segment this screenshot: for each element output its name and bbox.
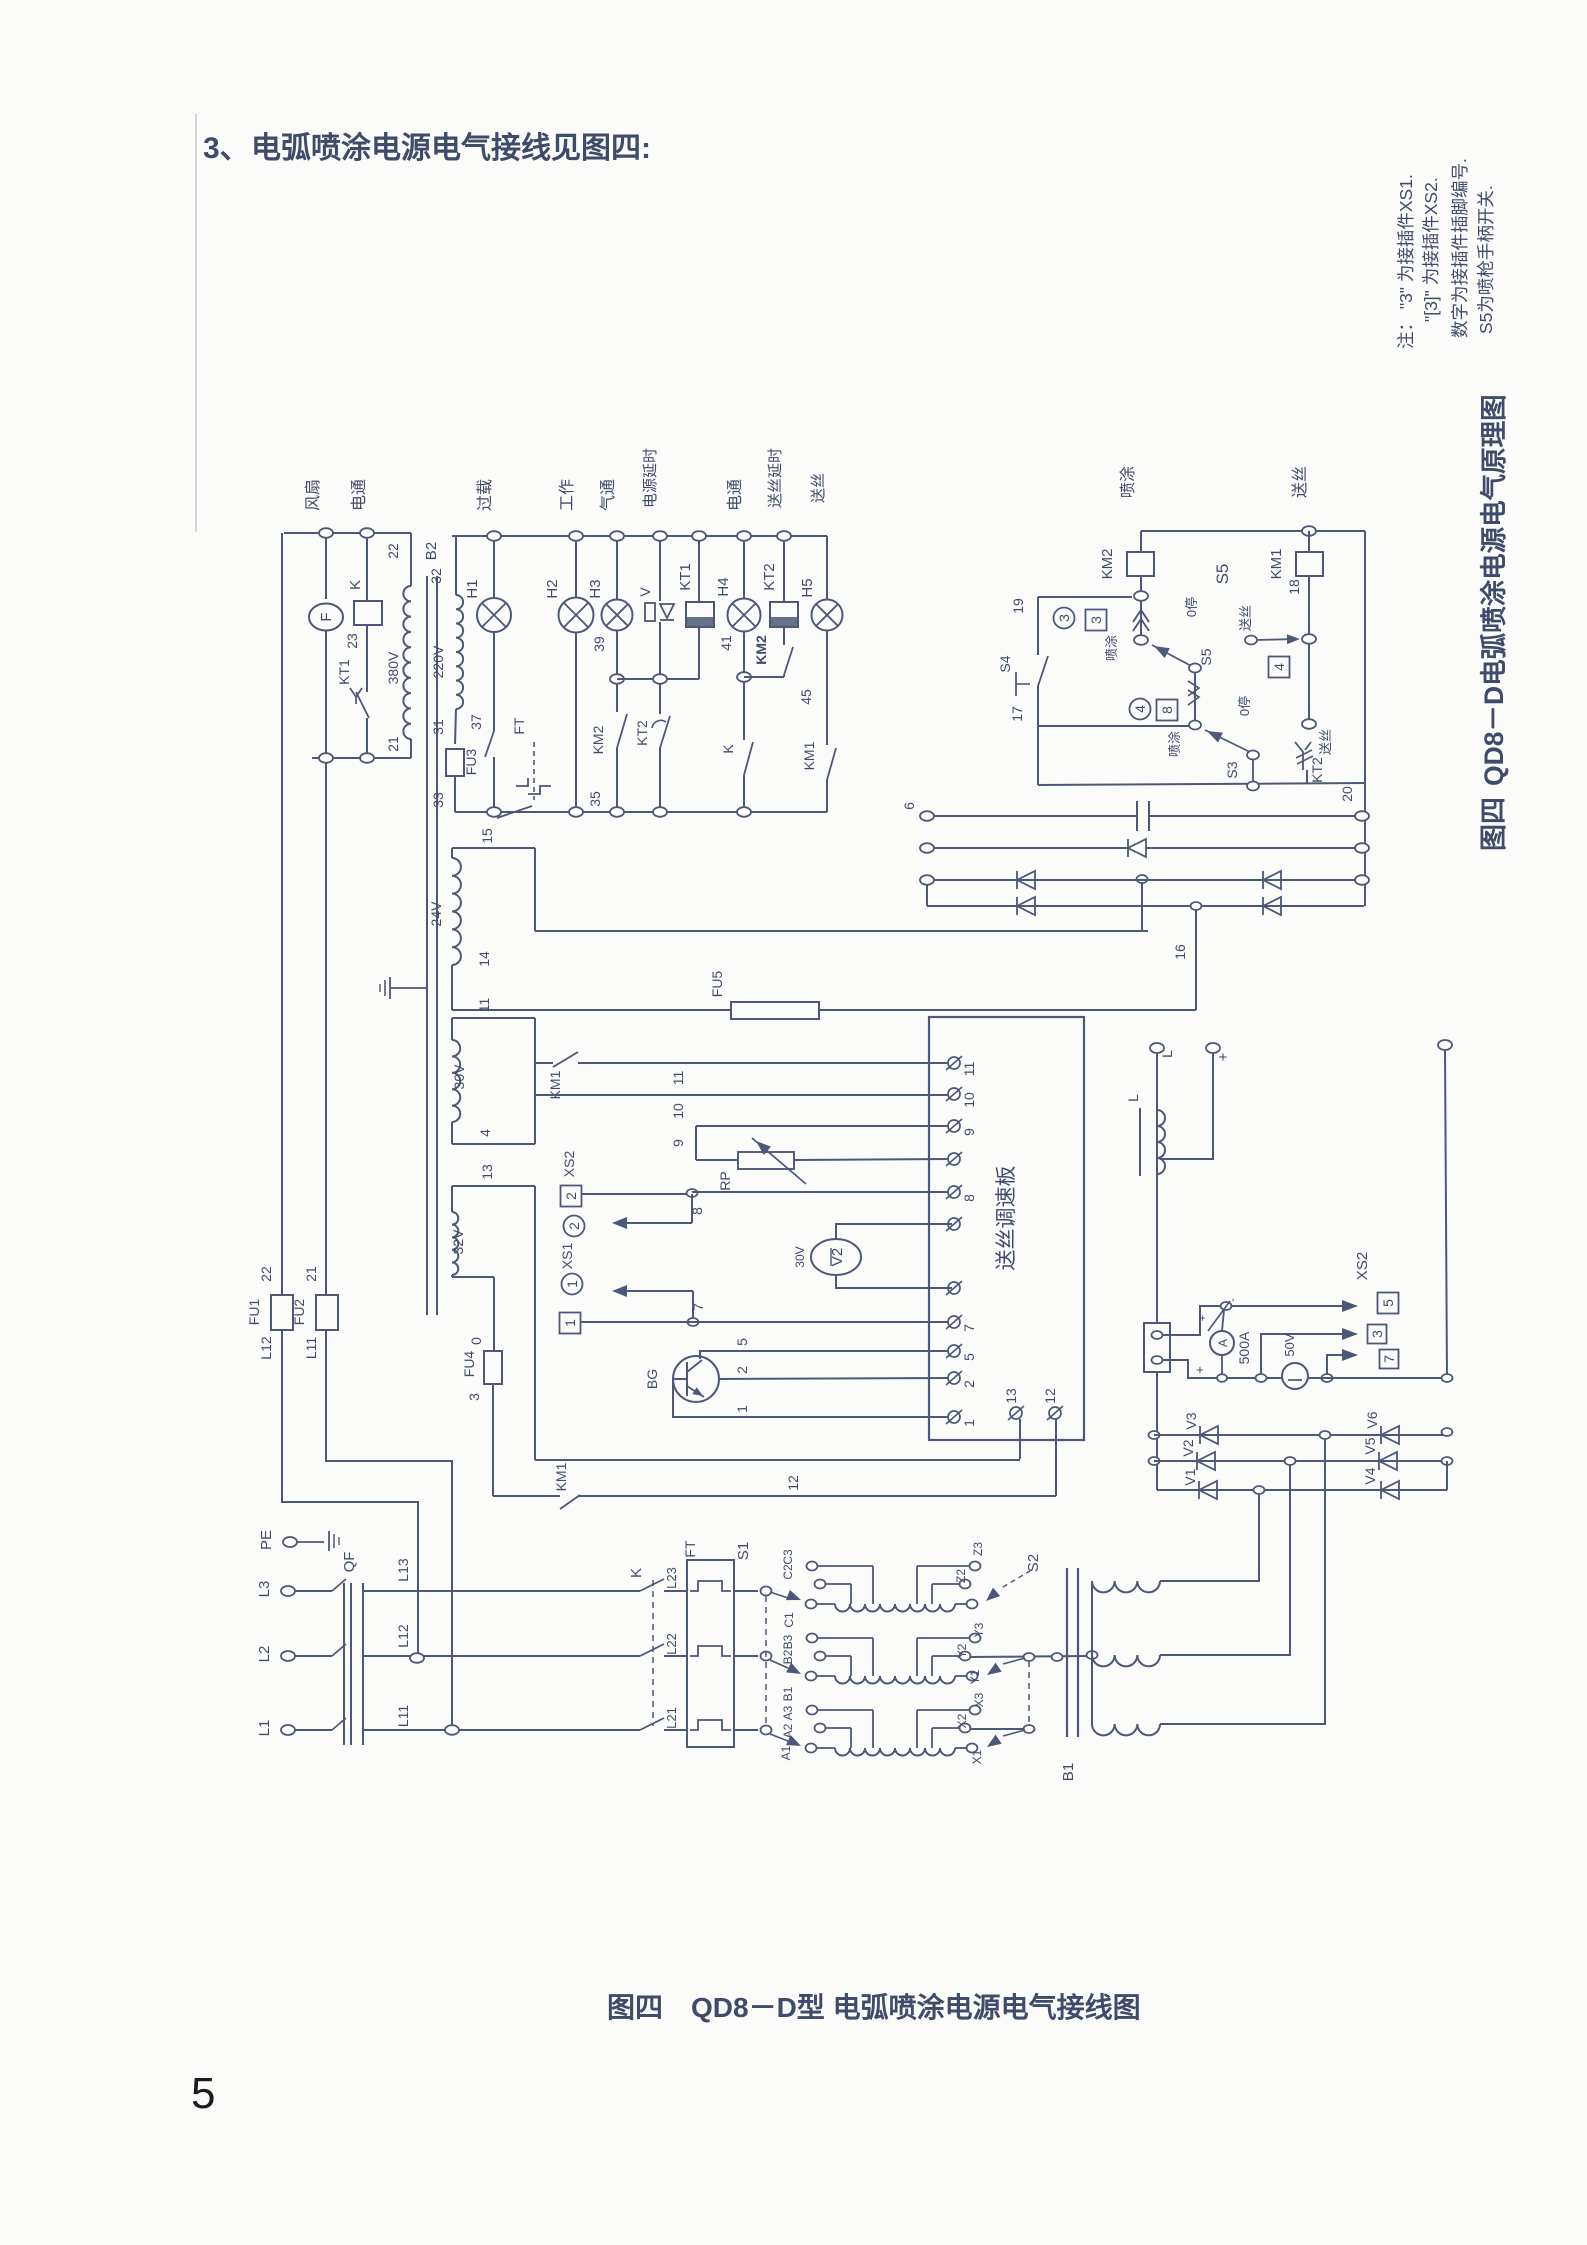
contact KM1b [827,748,836,780]
wire RP left drop [695,1126,697,1160]
winding 30V coil [452,1018,460,1144]
svg-text:S5为喷枪手柄开关.: S5为喷枪手柄开关. [1476,185,1496,334]
label L12f [258,1336,274,1360]
diode row2 [1128,839,1146,857]
label 33 [430,792,446,808]
label 35 [587,791,603,807]
wire A right edge [534,848,536,931]
svg-text:10: 10 [961,1092,977,1108]
wire 11 run [578,1062,948,1064]
label Z2 [954,1569,968,1583]
node vrow2 R [1442,1457,1453,1465]
capacitor plates [1137,801,1149,831]
label 送丝a [1238,605,1253,631]
contact 37 [485,731,494,757]
node row2 L [920,843,934,853]
svg-text:22: 22 [258,1266,274,1282]
label board 2 [961,1380,977,1388]
heater FT1 [690,1581,731,1591]
svg-text:V2: V2 [1180,1439,1196,1456]
label 32 [428,568,444,584]
svg-text:5: 5 [191,2069,215,2118]
node KT2b top [1302,719,1316,729]
label KM1b [801,741,817,770]
svg-text:电通: 电通 [726,479,744,511]
diode V6 [1381,1426,1399,1444]
bracket S4 top [1038,596,1132,598]
wire minus down [1445,1050,1447,1378]
svg-text:X2: X2 [955,1713,969,1728]
wire H3 mid [616,631,618,674]
wire j7 riser [692,1291,694,1322]
svg-text:C3: C3 [781,1549,795,1565]
svg-text:K: K [347,580,364,590]
svg-text:33: 33 [430,792,446,808]
wire KM1 stub [1308,531,1310,552]
label S1 [735,1542,752,1560]
wire shunt down [1156,1372,1158,1490]
core B2 [427,576,437,1315]
svg-text:电通: 电通 [350,479,368,511]
breaker QF blades [332,1579,346,1730]
bracket S4 left lower [1037,686,1039,785]
wire Y2 ext [970,1656,1086,1657]
svg-text:FU2: FU2 [291,1299,307,1326]
wire S net bottom [1038,783,1365,785]
label KT1 [336,659,352,685]
svg-text:0停: 0停 [1184,597,1199,617]
label KT2coil [761,563,778,591]
label 30Vmeter [793,1246,807,1267]
label 14 [476,951,492,967]
svg-text:14: 14 [476,951,492,967]
terminal plus [1206,1043,1220,1053]
label L12r [395,1624,411,1648]
label Y2 [955,1643,969,1658]
contact KM1c [553,1052,578,1067]
fuse FU3 [446,749,464,776]
wire KM1 down [1308,576,1310,635]
label XS2b [1354,1252,1371,1280]
lamp H2 [559,598,594,633]
label 13a [479,1164,495,1180]
wire vrow1 [1154,1434,1447,1436]
label B1 [1060,1763,1077,1781]
svg-text:L: L [1159,1050,1175,1058]
lamp H4 [728,599,761,632]
connector circ 3 [1054,608,1075,629]
contact K3 [640,1718,664,1730]
wire L3 in [295,1590,332,1592]
svg-text:QF: QF [341,1552,358,1573]
wire D run [578,1495,1056,1497]
label L2 [256,1646,273,1663]
switch S1 poles [761,1587,772,1735]
wire BG 2 [719,1378,948,1379]
title figure four [1479,797,1509,851]
svg-text:KM1: KM1 [1268,549,1285,580]
svg-text:H4: H4 [715,577,732,596]
svg-text:5: 5 [734,1338,750,1346]
svg-text:21: 21 [385,736,401,752]
svg-text:B2: B2 [423,542,440,560]
connector XS1 pin2 circle [564,1216,585,1237]
svg-text:S5: S5 [1198,648,1214,665]
node S2b [1024,1725,1035,1733]
link FT dashed [533,742,535,800]
wire K3 out [664,1729,687,1731]
label board 9 [961,1128,977,1136]
wire BG 1 [673,1379,948,1417]
wire j8 drop [691,1194,693,1223]
note line 4 [1476,185,1496,334]
connector box 3 [1086,610,1107,631]
arrow X side [987,1730,1025,1747]
label plus2 [1192,1366,1207,1374]
label C2 [781,1564,795,1580]
svg-text:风扇: 风扇 [304,479,322,511]
svg-text:KM1: KM1 [553,1462,569,1491]
board terminal y1192 [946,1185,962,1199]
wire left outer drop (phase L12 feed) [281,533,283,1295]
link S1 dashed [765,1596,767,1726]
connector box 5 [1378,1293,1399,1314]
svg-text:10: 10 [670,1103,686,1119]
wire KM1 mid [1308,643,1310,720]
diode V4 [1381,1481,1399,1499]
svg-text:12: 12 [785,1475,801,1491]
label 21 [385,736,401,752]
contact KT1 (delayed) [350,688,369,718]
shunt node top [1152,1331,1163,1339]
svg-text:B2: B2 [781,1649,795,1664]
label 喷涂a [1104,635,1119,661]
board terminal y1322 [946,1315,962,1329]
svg-text:V4: V4 [1362,1467,1378,1484]
svg-text:KT1: KT1 [336,659,352,685]
connector XS1 pin1 circle [562,1274,583,1295]
wire fan column bottom [325,631,327,758]
svg-text:工作: 工作 [558,479,576,511]
node fan bottom [319,753,333,763]
connector box 8 [1157,700,1178,721]
connector box 3b [1368,1325,1387,1344]
label 50V [1282,1333,1297,1356]
svg-text:电源延时: 电源延时 [642,448,659,508]
svg-text:H1: H1 [464,579,481,598]
svg-text:B1: B1 [781,1686,795,1701]
wire row4 [927,880,1364,906]
winding 24V [452,848,461,1010]
svg-text:L: L [1125,1094,1141,1102]
wire K2 out [664,1655,687,1657]
label C1 [782,1612,796,1628]
lamp H5 [812,600,843,631]
terminal L2 [281,1651,295,1661]
node vrow1 mid [1320,1431,1331,1439]
svg-text:H5: H5 [799,578,816,597]
wire L1 in [295,1729,332,1731]
wire H3 top [616,541,618,600]
left margin rule [195,114,197,532]
arrow input B [770,1660,801,1674]
arrow input A [770,1734,801,1746]
page number 5 [191,2069,215,2118]
svg-text:3: 3 [1056,614,1072,622]
wire KT2b bottom [1306,770,1308,783]
svg-text:18: 18 [1286,579,1302,595]
label 32V [450,1229,466,1255]
label B2 [781,1649,795,1664]
label Z3 [971,1542,985,1556]
label KM2a [590,725,606,754]
wire right top bus [1141,530,1365,532]
note line 3 [1450,158,1470,338]
label 380V [385,651,401,684]
label S3 [1224,761,1240,778]
svg-text:11: 11 [476,998,492,1013]
wire FT2 out [734,1655,758,1657]
svg-text:30V: 30V [451,1064,467,1090]
arrow S5 wiper2 [1205,730,1250,752]
svg-text:X3: X3 [972,1692,986,1707]
node 送丝 contact [1245,636,1257,645]
terminal minus [1438,1040,1452,1050]
label board 5 [961,1353,977,1361]
node row1 L [920,811,934,821]
label 30V [451,1064,467,1090]
wire t13 drop [1019,1419,1021,1459]
wire FU4 lower [492,1384,494,1496]
svg-text:喷涂: 喷涂 [1104,635,1119,661]
label Lind [1125,1094,1141,1102]
node sec mid [1087,1651,1098,1659]
label board 11 [961,1062,977,1077]
label L [1159,1050,1175,1058]
wire pin2 to j8 [582,1193,692,1195]
svg-text:V: V [637,587,653,597]
blades S1 [769,1588,779,1592]
label 喷涂top [1119,466,1137,498]
label KM2 [1099,549,1116,580]
node j5 [1221,1302,1232,1310]
label 6 [901,802,917,810]
wire KT2a upper [659,684,661,714]
wire KM2a lower [616,748,618,807]
wire X2 ext [970,1728,1029,1730]
label H3 [587,579,604,598]
wire H1 bottom [493,757,495,807]
board terminal y1417 [946,1410,962,1424]
contact FT aux diagonal [497,806,532,818]
label FU5 [709,971,725,998]
wire H5 top [826,536,828,600]
svg-text:A2: A2 [781,1723,795,1738]
label RP [717,1171,733,1190]
wire KT2a lower [659,748,661,807]
svg-text:9: 9 [961,1128,977,1136]
label 送丝调速板 [995,1166,1018,1271]
fuse FU5 [731,1002,819,1019]
label BG [644,1369,660,1389]
label L11r [395,1705,411,1728]
label 18 [1286,579,1302,595]
node KM1 top [1302,526,1316,536]
svg-text:A: A [1216,1339,1230,1347]
svg-text:B1: B1 [1060,1763,1077,1781]
potentiometer RP [738,1152,794,1169]
wire Ka lower [743,775,745,807]
svg-text:L12: L12 [258,1336,274,1360]
svg-text:39: 39 [591,636,607,652]
terminal PE [283,1537,297,1547]
svg-text:3: 3 [466,1393,482,1401]
svg-text:3: 3 [1088,616,1104,624]
label FU3 [463,749,479,776]
winding B1 primary C [806,1562,981,1612]
arrow xs2-7 [1342,1349,1358,1361]
label 41 [718,635,734,651]
svg-text:图四 QD8－D型 电弧喷涂电源电气接线图: 图四 QD8－D型 电弧喷涂电源电气接线图 [607,1991,1141,2023]
node j7b [1322,1374,1333,1382]
svg-text:KM2: KM2 [1099,549,1116,580]
note line 2 [1421,177,1441,322]
label KT2b [1309,757,1325,783]
label 0 [468,1337,484,1345]
wire 24V top link [452,847,535,849]
svg-text:A3: A3 [781,1705,795,1720]
label L22 [664,1633,679,1655]
label X2 [955,1713,969,1728]
winding 32V box [452,1186,535,1460]
wire t12 drop [1055,1419,1057,1496]
label 15 [479,828,495,844]
wire RP right lead [794,1159,948,1160]
node fan top [319,528,333,538]
svg-text:喷涂: 喷涂 [1119,466,1137,498]
label 电通 [350,479,368,511]
relay K coil [354,601,382,625]
label 24V [428,901,444,927]
overload FT box [687,1560,734,1747]
label H1 [464,579,481,598]
arrow RP wiper [752,1138,806,1184]
svg-text:注： "3" 为接插件XS1.: 注： "3" 为接插件XS1. [1396,174,1416,349]
svg-text:BG: BG [644,1369,660,1389]
node L11 tap [445,1725,459,1735]
wire minus corner [1446,1461,1448,1490]
wire H2 bottom [575,633,577,807]
svg-text:L11: L11 [395,1705,411,1728]
ammeter A [1210,1331,1234,1355]
label V2d [1180,1439,1196,1456]
wire A bottom [1221,1355,1223,1378]
ground to core [390,987,427,989]
wire shunt to meterbracket [1163,1306,1222,1335]
wire D left [493,1495,560,1497]
winding B1 secondary 3 [1092,1724,1160,1735]
label X1 [970,1749,984,1764]
svg-text:V5: V5 [1362,1437,1378,1454]
svg-text:32: 32 [428,568,444,584]
label S5big [1213,564,1232,585]
shunt [1144,1323,1170,1372]
node S2a [1024,1653,1035,1661]
svg-text:QD8－D电弧喷涂电源电气原理图: QD8－D电弧喷涂电源电气原理图 [1479,394,1509,786]
voltmeter V2 [811,1239,861,1275]
wire sec2 riser [1160,1465,1290,1655]
terminal L [1150,1043,1164,1053]
board terminal y1159 [946,1152,962,1166]
core bar L [1139,1108,1141,1176]
svg-text:21: 21 [303,1266,319,1282]
wire KT1 bottom [698,627,700,679]
label S5b [1198,648,1214,665]
label H2 [544,579,561,598]
fuse FU2 [316,1295,338,1330]
arrow 送丝 wiper [1257,634,1300,644]
svg-text:6: 6 [901,802,917,810]
svg-text:过载: 过载 [476,479,494,511]
wire 9 run [696,1125,948,1127]
label V [637,587,653,597]
node S5 pivot2 [1189,721,1201,730]
wire 5 to XS2 [1232,1305,1356,1307]
node vrow3 mid [1254,1486,1265,1494]
label KM1d [553,1462,569,1491]
terminal L3 [281,1586,295,1596]
label 3a [466,1393,482,1401]
wire 3 riser [1261,1334,1356,1374]
label A1 [779,1745,793,1760]
wire H4 mid [743,631,745,672]
wire top bus left section [284,532,411,534]
label 8a [689,1207,705,1215]
winding B2 380V primary [403,533,411,758]
svg-text:气通: 气通 [599,479,617,511]
wire row1 [927,815,1362,817]
svg-text:L22: L22 [664,1633,679,1655]
svg-text:送丝调速板: 送丝调速板 [995,1166,1018,1271]
svg-text:B3: B3 [781,1634,795,1649]
label L13 [395,1558,411,1582]
wire BG base lead [673,1378,687,1380]
chevrons S5 link [1188,681,1199,705]
connector box 7 [1380,1350,1399,1369]
link S2 dashed [1028,1661,1030,1725]
label 电通2 [726,479,744,511]
label 喷涂b [1167,731,1182,757]
title vertical [1479,394,1509,786]
svg-text:9: 9 [670,1139,686,1147]
svg-text:13: 13 [479,1164,495,1180]
node K bottom [360,753,374,763]
node row3 R [1355,875,1369,885]
label L21 [664,1707,679,1729]
contact KM2b [784,647,793,675]
wire arrow1 run [614,1290,693,1292]
node L12 tap [410,1653,424,1663]
svg-text:13: 13 [1003,1388,1019,1404]
label 39 [591,636,607,652]
label 过载 [476,479,494,511]
svg-text:5: 5 [961,1353,977,1361]
label FT [511,717,527,735]
svg-text:4: 4 [1271,663,1287,671]
svg-text:L12: L12 [395,1624,411,1648]
label V6 [1364,1411,1380,1428]
svg-text:380V: 380V [385,651,401,684]
